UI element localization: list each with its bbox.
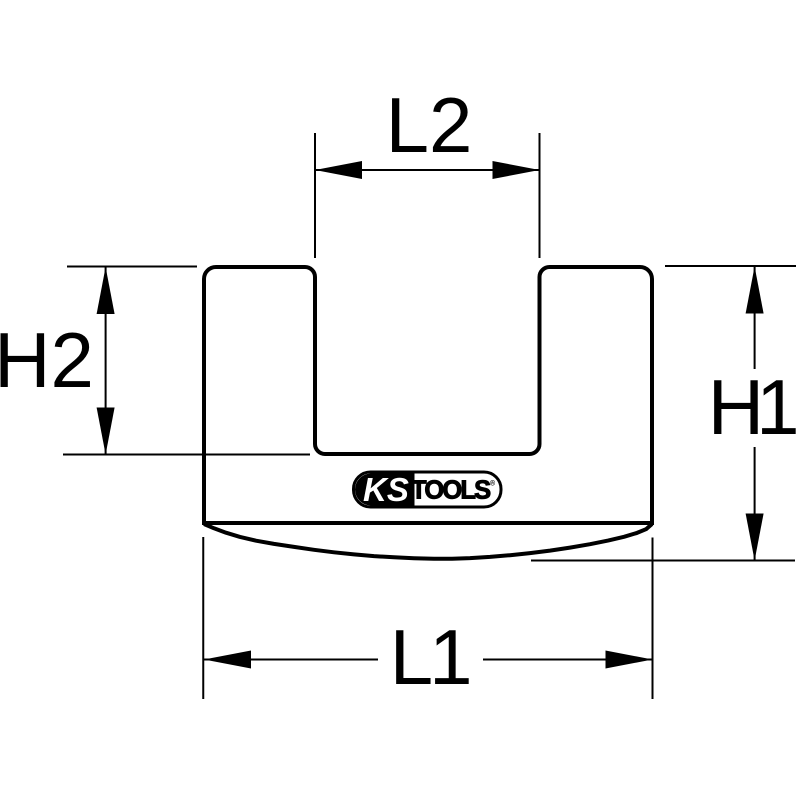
L1 dimension line left segment xyxy=(204,659,378,661)
svg-text:®: ® xyxy=(490,480,496,488)
svg-text:H2: H2 xyxy=(0,316,94,404)
KS TOOLS logo xyxy=(354,471,502,508)
svg-text:KS: KS xyxy=(363,471,409,508)
H2 arrow top xyxy=(97,267,115,314)
svg-text:H1: H1 xyxy=(708,363,800,451)
bottom curved edge xyxy=(204,524,652,559)
H1 arrow bottom xyxy=(746,514,764,561)
dimension L2 (top) xyxy=(315,81,540,258)
H2 extension line top xyxy=(67,266,197,268)
L2 dimension line xyxy=(315,169,540,171)
H1 dimension line upper segment xyxy=(754,267,756,369)
H1 arrow top xyxy=(746,267,764,314)
dimension L1 (bottom) xyxy=(203,537,652,701)
L1 arrow left xyxy=(204,651,251,669)
L1 arrow right xyxy=(606,651,653,669)
L2 arrow left xyxy=(315,161,362,179)
H1 extension line top xyxy=(665,265,796,267)
L2 extension line left xyxy=(314,133,316,258)
L2 extension line right xyxy=(539,133,541,258)
H1 dimension line lower segment xyxy=(754,447,756,561)
svg-text:L1: L1 xyxy=(390,613,473,701)
H2 arrow bottom xyxy=(97,408,115,455)
L1 dimension line right segment xyxy=(483,659,653,661)
svg-text:TOOLS: TOOLS xyxy=(411,476,491,504)
L1 extension line right xyxy=(652,538,654,700)
H1 extension line bottom xyxy=(531,560,795,562)
H2 dimension line xyxy=(105,267,107,455)
L2 arrow right xyxy=(493,161,540,179)
H2 extension line bottom xyxy=(63,454,310,456)
body outline (U-shaped tool) xyxy=(204,267,652,523)
dimension H2 (left) xyxy=(0,267,310,455)
L1 extension line left xyxy=(202,537,204,699)
dimension H1 (right) xyxy=(531,266,800,561)
svg-text:L2: L2 xyxy=(386,81,473,169)
